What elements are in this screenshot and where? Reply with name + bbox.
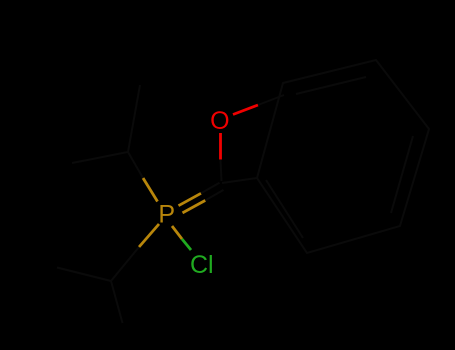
- aromatic inner line right (V4-V5): [391, 136, 413, 213]
- svg-text:P: P: [158, 201, 175, 229]
- double bond P=C upper line gold half: [179, 193, 202, 205]
- aromatic inner line bottom-left (V6-V1): [266, 180, 303, 238]
- bond C1-methyl up: [128, 85, 140, 152]
- bond P-Cl (green half): [182, 239, 191, 250]
- bond C2-methyl left: [57, 268, 111, 282]
- bond C*-O red half: [219, 133, 222, 160]
- bond O-CH3 gray half: [258, 95, 284, 105]
- double bond P=C lower line gold half: [183, 200, 206, 213]
- bond O-CH3 red half: [233, 105, 258, 115]
- svg-text:Cl: Cl: [190, 251, 214, 279]
- bond C*-O gray half: [221, 160, 222, 181]
- double bond P=C upper line gray half: [201, 183, 220, 194]
- aromatic inner line top (V2-V3): [296, 77, 366, 94]
- bond C*-phenyl: [222, 178, 257, 183]
- double bond P=C lower line gray half: [205, 190, 223, 201]
- bond P-C1 (gold half): [143, 178, 158, 202]
- bond C2-methyl down: [111, 281, 123, 323]
- phenyl ring outline: [257, 60, 429, 253]
- bond P-Cl (gold half): [172, 226, 182, 239]
- bond P-C2 (gray half): [111, 247, 139, 281]
- bond P-C2 (gold half): [139, 224, 159, 247]
- bond P-C1 (gray half): [128, 152, 143, 178]
- svg-text:O: O: [210, 107, 229, 135]
- bond C1-methyl left: [72, 152, 128, 163]
